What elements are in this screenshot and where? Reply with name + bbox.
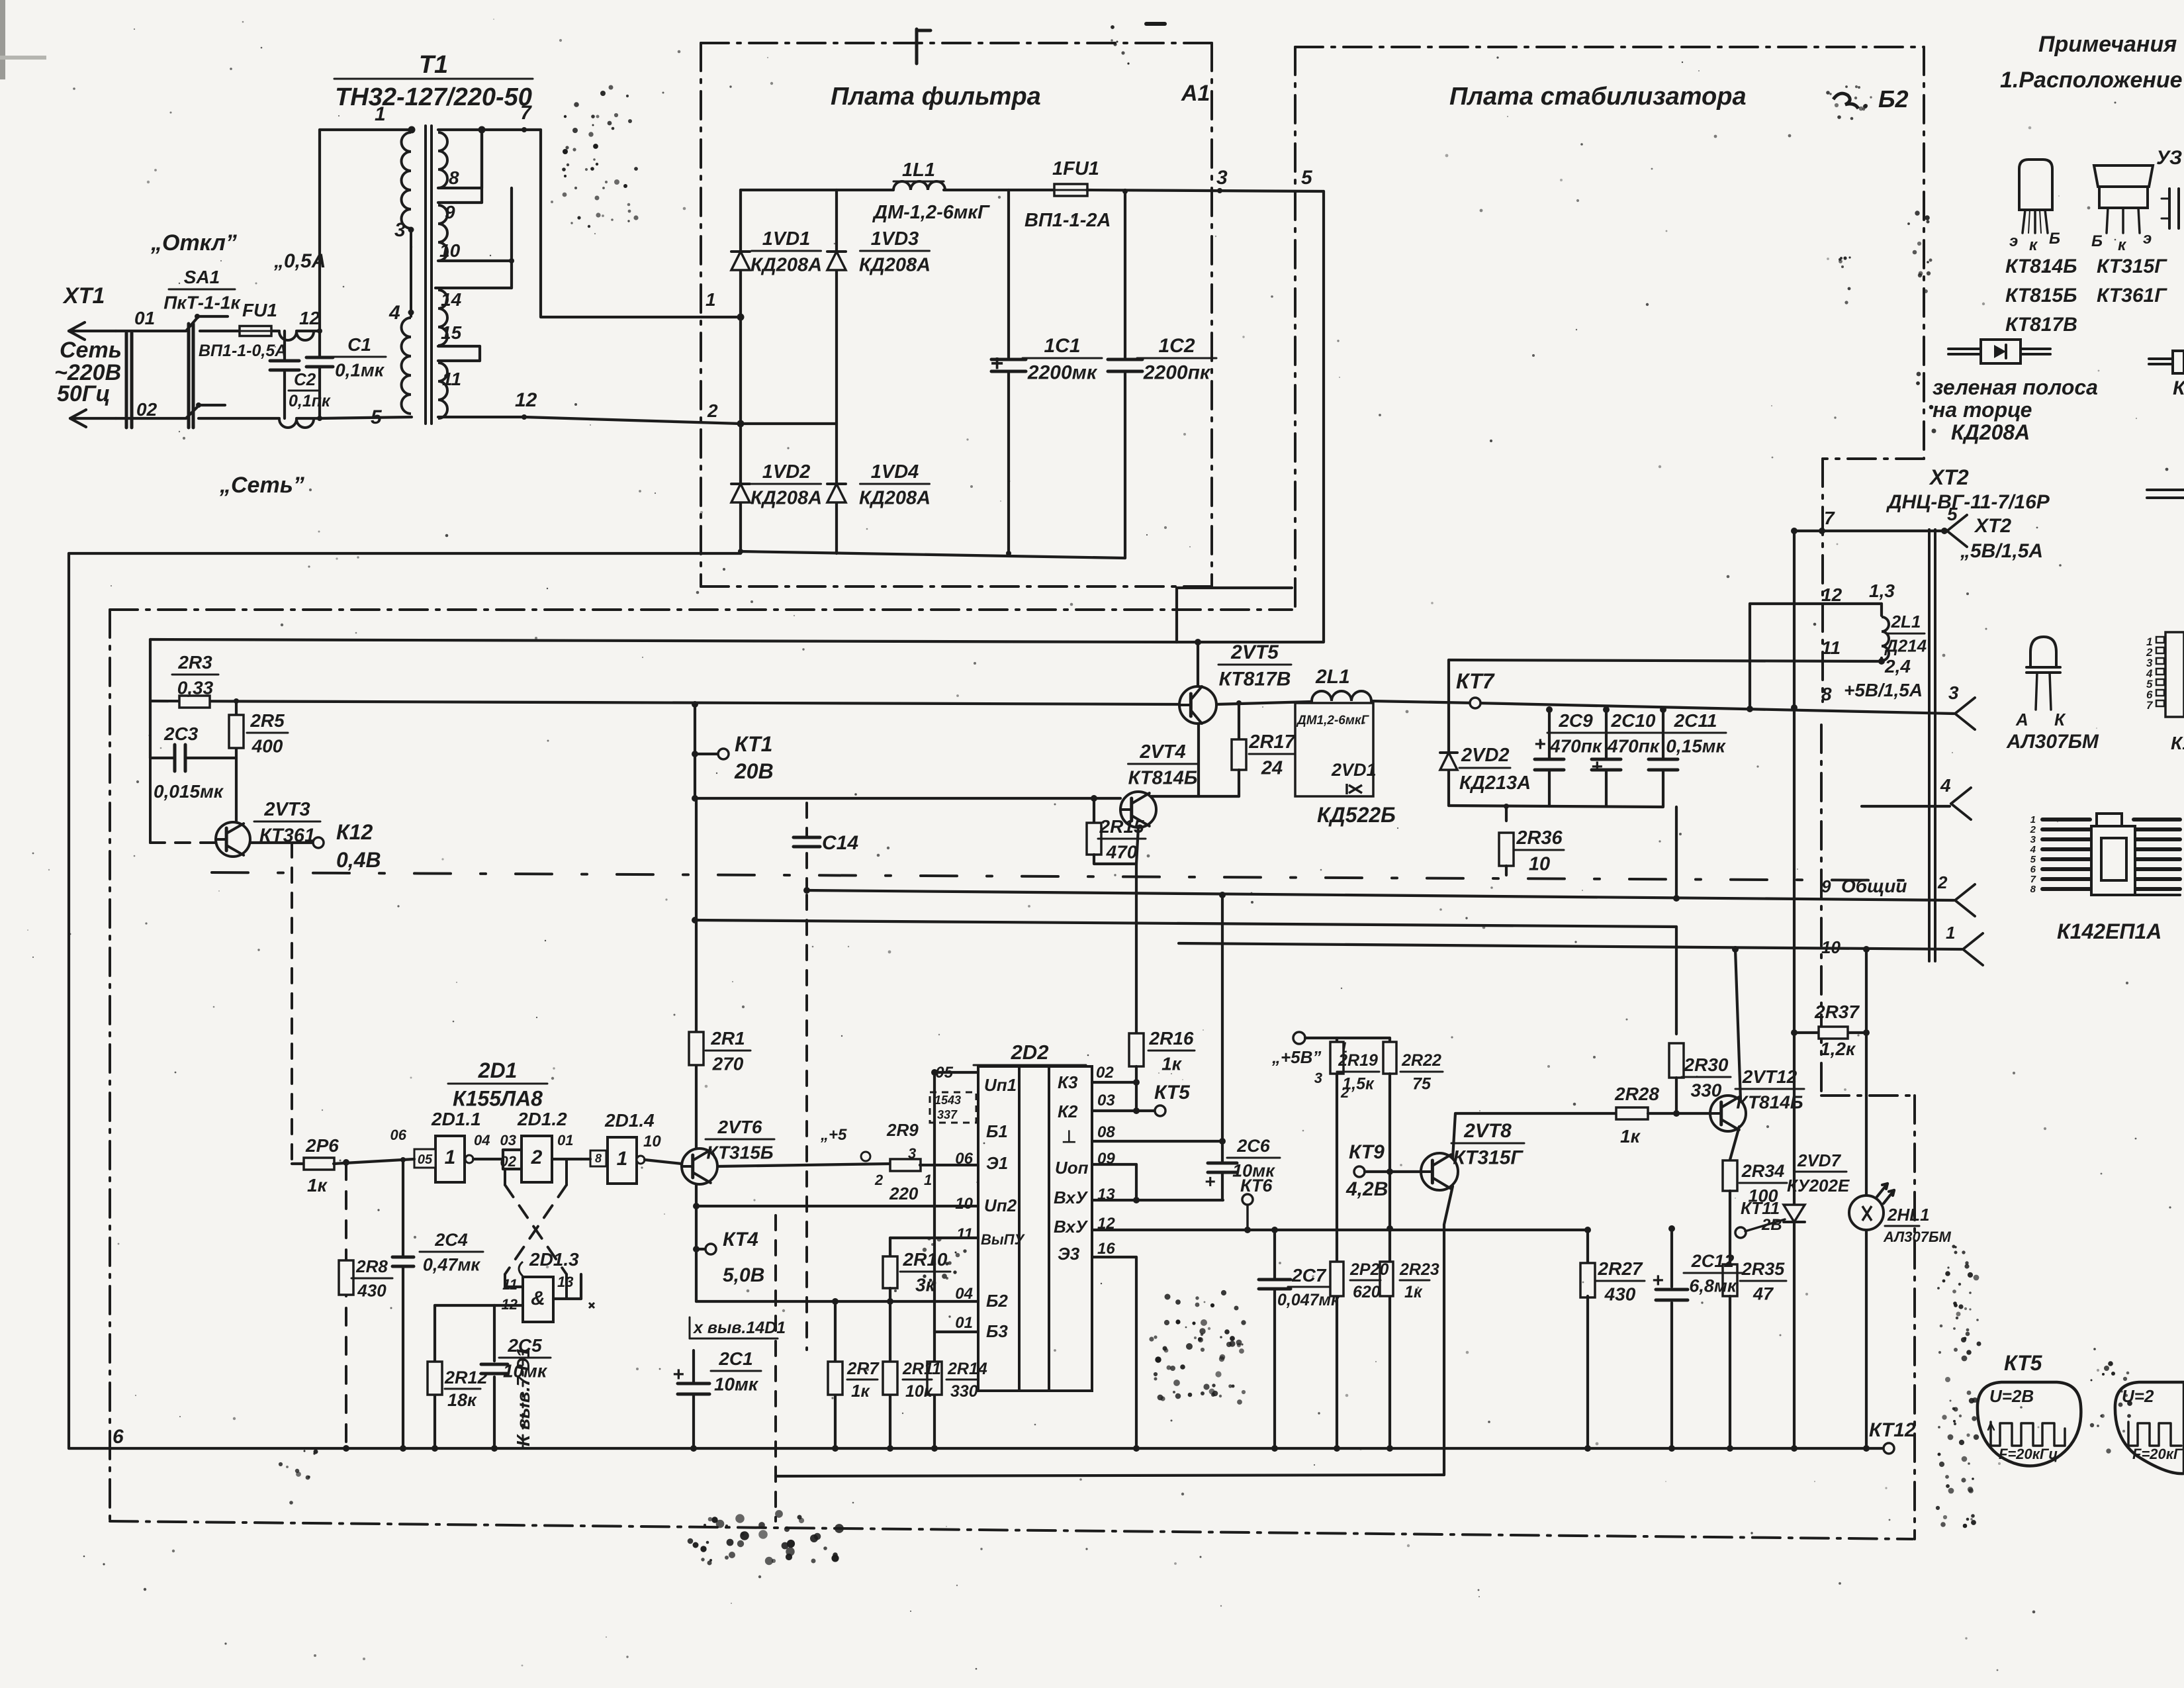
svg-text:3: 3 (908, 1145, 916, 1162)
svg-text:К142ЕП1А: К142ЕП1А (2057, 919, 2161, 943)
svg-text:15: 15 (441, 322, 462, 343)
svg-text:2С11: 2С11 (1674, 710, 1717, 731)
svg-text:1к: 1к (1620, 1126, 1641, 1147)
svg-text:2R7: 2R7 (846, 1358, 880, 1378)
svg-text:2R14: 2R14 (947, 1360, 987, 1378)
svg-text:4: 4 (1940, 775, 1951, 796)
svg-text:2D1.1: 2D1.1 (431, 1109, 481, 1129)
svg-text:1к: 1к (1161, 1053, 1183, 1074)
svg-text:КД208А: КД208А (859, 487, 931, 508)
svg-text:2R5: 2R5 (250, 710, 285, 731)
svg-text:8: 8 (595, 1152, 602, 1165)
svg-text:„0,5А: „0,5А (273, 250, 326, 272)
svg-text:0,4В: 0,4В (336, 848, 381, 872)
svg-text:Общии: Общии (1841, 876, 1907, 896)
svg-text:1: 1 (705, 289, 716, 310)
svg-text:330: 330 (1691, 1080, 1722, 1100)
svg-text:КТ11: КТ11 (1741, 1198, 1780, 1218)
svg-text:1VD2: 1VD2 (762, 461, 811, 483)
svg-text:10мк: 10мк (714, 1374, 759, 1394)
svg-text:+: + (1652, 1270, 1664, 1291)
svg-text:+: + (1534, 733, 1546, 755)
svg-text:3: 3 (394, 219, 406, 241)
svg-text:К: К (2173, 377, 2184, 399)
svg-text:1,3: 1,3 (1869, 581, 1895, 601)
svg-text:КТ5: КТ5 (2004, 1351, 2043, 1375)
svg-text:АЛ307БМ: АЛ307БМ (2006, 731, 2099, 753)
svg-text:2С1: 2С1 (718, 1348, 752, 1369)
svg-text:2R36: 2R36 (1516, 827, 1563, 849)
svg-text:„+5В”: „+5В” (1271, 1047, 1321, 1067)
svg-text:2: 2 (531, 1147, 543, 1168)
svg-text:2R37: 2R37 (1814, 1002, 1860, 1022)
svg-text:УЗ: УЗ (2156, 147, 2182, 169)
svg-text:05: 05 (418, 1152, 433, 1167)
svg-text:+: + (1591, 756, 1603, 778)
svg-text:2R8: 2R8 (355, 1256, 388, 1276)
svg-text:Т1: Т1 (419, 51, 448, 79)
svg-text:6: 6 (113, 1426, 124, 1448)
svg-text:КТ6: КТ6 (1240, 1176, 1273, 1196)
svg-text:КД522Б: КД522Б (1317, 803, 1396, 827)
svg-text:2R23: 2R23 (1399, 1260, 1439, 1279)
svg-text:1543: 1543 (934, 1094, 961, 1107)
svg-text:01: 01 (955, 1314, 973, 1332)
svg-text:С2: С2 (294, 369, 316, 389)
svg-text:„Откл”: „Откл” (150, 230, 237, 256)
svg-text:+: + (990, 351, 1003, 376)
svg-text:КТ814Б: КТ814Б (2005, 256, 2077, 277)
svg-text:⊥: ⊥ (1062, 1127, 1077, 1147)
svg-text:8: 8 (1821, 684, 1832, 704)
svg-text:КТ817В: КТ817В (1219, 669, 1291, 690)
svg-text:3: 3 (1948, 682, 1959, 703)
svg-text:ХТ2: ХТ2 (1974, 515, 2011, 537)
svg-text:0,15мк: 0,15мк (1666, 735, 1726, 756)
svg-text:2HL1: 2HL1 (1887, 1205, 1930, 1225)
svg-text:2D1.4: 2D1.4 (604, 1110, 655, 1131)
svg-text:х выв.14D1: х выв.14D1 (692, 1319, 786, 1337)
svg-text:1: 1 (617, 1148, 628, 1170)
svg-text:э: э (2009, 232, 2018, 250)
svg-text:на торце: на торце (1933, 398, 2032, 422)
svg-text:К: К (2054, 710, 2066, 729)
svg-text:1к: 1к (1404, 1283, 1423, 1301)
svg-text:2R10: 2R10 (903, 1249, 948, 1270)
svg-text:16: 16 (1097, 1240, 1115, 1258)
svg-text:2VD1: 2VD1 (1331, 760, 1377, 780)
svg-text:Примечания: Примечания (2038, 32, 2177, 57)
svg-text:КД208А: КД208А (859, 254, 931, 275)
svg-text:КТ5: КТ5 (1154, 1082, 1191, 1103)
svg-text:Б3: Б3 (986, 1321, 1008, 1341)
svg-text:2Р6: 2Р6 (305, 1135, 339, 1156)
svg-text:2VD2: 2VD2 (1461, 745, 1510, 766)
svg-text:03: 03 (1097, 1092, 1115, 1109)
svg-text:к: к (2118, 236, 2127, 254)
svg-text:ВП1-1-0,5А: ВП1-1-0,5А (199, 342, 287, 360)
svg-text:FU1: FU1 (242, 300, 277, 320)
svg-text:1: 1 (924, 1172, 932, 1188)
svg-text:2R35: 2R35 (1741, 1259, 1786, 1279)
svg-text:ТН32-127/220-50: ТН32-127/220-50 (335, 83, 532, 111)
svg-text:3: 3 (1216, 167, 1228, 189)
svg-text:К2: К2 (1058, 1102, 1078, 1121)
svg-text:КТ4: КТ4 (723, 1229, 758, 1250)
svg-text:Б: Б (2091, 232, 2103, 250)
svg-text:U=2В: U=2В (1989, 1386, 2034, 1406)
svg-text:1VD3: 1VD3 (871, 228, 919, 250)
svg-text:1VD4: 1VD4 (871, 461, 919, 483)
svg-text:АЛ307БМ: АЛ307БМ (1883, 1229, 1952, 1245)
svg-text:3: 3 (1314, 1070, 1322, 1086)
svg-text:2R16: 2R16 (1149, 1028, 1194, 1049)
svg-text:2R28: 2R28 (1614, 1084, 1659, 1104)
svg-text:1FU1: 1FU1 (1052, 158, 1099, 179)
svg-text:13: 13 (557, 1274, 573, 1290)
svg-text:С1: С1 (347, 334, 371, 355)
svg-text:02: 02 (136, 399, 158, 420)
svg-text:„Сеть”: „Сеть” (219, 473, 304, 498)
svg-text:470: 470 (1106, 841, 1138, 862)
svg-text:11: 11 (1821, 637, 1841, 658)
svg-text:2R11: 2R11 (902, 1360, 941, 1378)
svg-text:Uоп: Uоп (1055, 1158, 1089, 1178)
svg-text:8: 8 (449, 167, 459, 188)
svg-text:2200мк: 2200мк (1027, 362, 1098, 384)
svg-text:2VT5: 2VT5 (1230, 641, 1279, 663)
svg-text:Б2: Б2 (1878, 85, 1909, 113)
svg-text:430: 430 (1604, 1284, 1636, 1304)
svg-text:КТ315Г: КТ315Г (1453, 1147, 1524, 1169)
svg-text:11: 11 (502, 1276, 518, 1293)
svg-text:4,2В: 4,2В (1345, 1178, 1388, 1200)
svg-text:2R30: 2R30 (1684, 1055, 1729, 1075)
svg-text:К155ЛА8: К155ЛА8 (453, 1087, 543, 1111)
svg-text:КД208А: КД208А (1951, 420, 2030, 444)
svg-text:2VT6: 2VT6 (717, 1117, 762, 1137)
svg-text:Б: Б (2049, 230, 2060, 248)
svg-text:7: 7 (2146, 699, 2154, 712)
svg-text:470пк: 470пк (1549, 735, 1603, 756)
svg-text:„5В/1,5А: „5В/1,5А (1960, 540, 2043, 562)
svg-text:0,1мк: 0,1мк (335, 359, 385, 380)
svg-text:18к: 18к (447, 1390, 477, 1410)
svg-text:2R19: 2R19 (1338, 1051, 1378, 1070)
svg-text:2R3: 2R3 (177, 652, 212, 673)
svg-text:э: э (2143, 230, 2152, 248)
svg-text:F=20кГц: F=20кГц (1999, 1446, 2058, 1462)
svg-text:47: 47 (1752, 1284, 1774, 1303)
svg-text:1.Расположение выв: 1.Расположение выв (2000, 68, 2184, 93)
svg-text:Сеть: Сеть (60, 338, 122, 363)
svg-text:Э3: Э3 (1058, 1244, 1080, 1264)
svg-text:2R17: 2R17 (1248, 731, 1296, 753)
svg-text:Плата стабилизатора: Плата стабилизатора (1449, 83, 1747, 111)
svg-text:КТ361Г: КТ361Г (2097, 285, 2167, 306)
svg-text:+: + (1205, 1171, 1215, 1192)
svg-text:2D1: 2D1 (478, 1058, 518, 1082)
svg-text:2D2: 2D2 (1011, 1041, 1049, 1064)
svg-text:ДНЦ-ВГ-11-7/16Р: ДНЦ-ВГ-11-7/16Р (1886, 491, 2050, 513)
svg-text:2С10: 2С10 (1611, 710, 1656, 731)
svg-text:620: 620 (1353, 1283, 1381, 1301)
svg-text:зеленая полоса: зеленая полоса (1933, 375, 2098, 399)
svg-text:к: к (2029, 236, 2038, 254)
svg-text:5: 5 (1301, 167, 1313, 189)
svg-text:+: + (672, 1364, 684, 1385)
svg-text:КТ815Б: КТ815Б (2005, 285, 2077, 306)
svg-text:КТ315Г: КТ315Г (2097, 256, 2167, 277)
svg-text:2D1.2: 2D1.2 (517, 1109, 567, 1129)
svg-text:2R34: 2R34 (1741, 1161, 1785, 1181)
svg-text:КД208А: КД208А (751, 487, 822, 508)
svg-text:11: 11 (956, 1225, 973, 1243)
svg-text:03: 03 (500, 1132, 516, 1149)
svg-text:5,0В: 5,0В (723, 1264, 764, 1286)
svg-text:F=20кГц: F=20кГц (2132, 1446, 2184, 1462)
svg-text:7: 7 (520, 102, 532, 124)
svg-text:КТ12: КТ12 (1869, 1419, 1916, 1441)
svg-text:К1: К1 (2171, 733, 2184, 753)
svg-text:220: 220 (889, 1184, 919, 1203)
svg-text:ВыПУ: ВыПУ (981, 1231, 1025, 1248)
svg-text:Б1: Б1 (986, 1121, 1008, 1141)
svg-text:SA1: SA1 (184, 267, 220, 287)
svg-text:12: 12 (299, 308, 320, 328)
svg-text:2R9: 2R9 (886, 1120, 919, 1140)
svg-text:10к: 10к (905, 1382, 933, 1401)
svg-text:2VT3: 2VT3 (263, 799, 310, 820)
svg-text:ВхУ: ВхУ (1054, 1217, 1089, 1237)
svg-text:1,2к: 1,2к (1820, 1039, 1856, 1059)
svg-text:6,8мк: 6,8мк (1689, 1276, 1737, 1295)
svg-text:2L1: 2L1 (1891, 612, 1921, 632)
svg-text:24: 24 (1261, 757, 1283, 778)
svg-text:2С4: 2С4 (434, 1230, 468, 1250)
svg-text:Uп1: Uп1 (984, 1075, 1017, 1095)
svg-text:75: 75 (1412, 1074, 1432, 1093)
svg-text:1,5к: 1,5к (1342, 1074, 1375, 1093)
svg-text:50Гц: 50Гц (57, 381, 111, 406)
svg-text:20В: 20В (734, 759, 774, 783)
svg-text:02: 02 (1096, 1064, 1114, 1082)
svg-text:&: & (531, 1288, 545, 1309)
svg-text:2,4: 2,4 (1884, 656, 1911, 677)
svg-text:+5В/1,5А: +5В/1,5А (1844, 680, 1923, 700)
svg-text:4: 4 (388, 302, 400, 324)
svg-text:Э1: Э1 (986, 1153, 1008, 1173)
svg-text:06: 06 (390, 1127, 407, 1143)
svg-text:01: 01 (557, 1132, 573, 1149)
svg-text:0,47мк: 0,47мк (423, 1254, 481, 1274)
svg-text:К12: К12 (336, 820, 373, 844)
svg-text:10: 10 (955, 1195, 973, 1213)
svg-text:ХТ2: ХТ2 (1929, 465, 1969, 489)
svg-text:КТ9: КТ9 (1349, 1141, 1385, 1163)
svg-text:ВП1-1-2А: ВП1-1-2А (1024, 210, 1111, 231)
svg-text:10: 10 (1529, 853, 1550, 874)
svg-text:12: 12 (515, 389, 537, 411)
svg-text:270: 270 (712, 1053, 744, 1074)
svg-text:КТ1: КТ1 (735, 732, 772, 756)
svg-text:2L1: 2L1 (1315, 666, 1350, 688)
svg-text:0,015мк: 0,015мк (154, 781, 224, 802)
svg-text:2С3: 2С3 (163, 724, 199, 744)
svg-text:9: 9 (1821, 876, 1831, 896)
svg-text:0,33: 0,33 (177, 677, 214, 698)
svg-text:КТ315Б: КТ315Б (706, 1142, 773, 1162)
svg-text:1VD1: 1VD1 (762, 228, 811, 250)
svg-text:2VT12: 2VT12 (1742, 1066, 1797, 1087)
svg-text:2R22: 2R22 (1401, 1051, 1441, 1070)
svg-text:К3: К3 (1058, 1072, 1078, 1092)
svg-text:2R1: 2R1 (710, 1028, 745, 1049)
svg-text:С14: С14 (822, 832, 858, 854)
svg-text:КТ814Б: КТ814Б (1128, 767, 1198, 788)
svg-text:КТ361: КТ361 (259, 825, 315, 846)
svg-text:2R27: 2R27 (1598, 1258, 1643, 1279)
svg-text:ПкТ-1-1к: ПкТ-1-1к (163, 292, 241, 312)
svg-text:1: 1 (1946, 923, 1955, 943)
svg-text:08: 08 (1097, 1123, 1115, 1141)
svg-text:КУ202Е: КУ202Е (1787, 1176, 1850, 1196)
svg-text:7: 7 (1824, 508, 1835, 528)
svg-text:2VD7: 2VD7 (1797, 1150, 1842, 1170)
svg-text:1: 1 (445, 1147, 456, 1168)
svg-text:„+5: „+5 (820, 1126, 847, 1144)
svg-text:1к: 1к (851, 1381, 870, 1401)
svg-text:ДМ1,2-6мкГ: ДМ1,2-6мкГ (1296, 714, 1370, 727)
svg-text:10: 10 (439, 240, 461, 261)
svg-text:Д214: Д214 (1884, 635, 1927, 655)
svg-text:2VT8: 2VT8 (1463, 1120, 1512, 1142)
svg-text:01: 01 (134, 308, 155, 328)
svg-text:2Р20: 2Р20 (1349, 1260, 1388, 1279)
svg-text:КТ814Б: КТ814Б (1736, 1092, 1803, 1112)
svg-text:2: 2 (1937, 872, 1948, 892)
svg-text:04: 04 (474, 1132, 490, 1149)
svg-text:2С7: 2С7 (1291, 1265, 1327, 1286)
svg-text:1L1: 1L1 (902, 160, 935, 181)
svg-text:2200пк: 2200пк (1143, 362, 1211, 384)
svg-text:КД208А: КД208А (751, 254, 822, 275)
svg-text:КТ7: КТ7 (1456, 669, 1496, 693)
svg-text:1: 1 (375, 103, 386, 125)
svg-text:Uп2: Uп2 (984, 1196, 1017, 1215)
svg-text:2: 2 (707, 400, 718, 421)
svg-text:400: 400 (251, 735, 283, 756)
svg-text:КТ817В: КТ817В (2005, 314, 2077, 336)
svg-text:1С1: 1С1 (1044, 335, 1080, 357)
svg-text:2С12: 2С12 (1691, 1251, 1735, 1271)
svg-text:430: 430 (357, 1280, 387, 1300)
svg-text:А: А (2015, 710, 2028, 729)
svg-text:10: 10 (1821, 937, 1841, 957)
svg-text:ДМ-1,2-6мкГ: ДМ-1,2-6мкГ (872, 202, 990, 223)
svg-text:5: 5 (1947, 504, 1958, 524)
svg-text:2: 2 (874, 1172, 884, 1188)
svg-text:2С6: 2С6 (1236, 1136, 1271, 1156)
svg-text:0,1пк: 0,1пк (289, 392, 331, 410)
svg-text:2С9: 2С9 (1558, 710, 1593, 731)
svg-text:2D1.3: 2D1.3 (529, 1249, 579, 1270)
svg-text:Б2: Б2 (986, 1291, 1008, 1311)
svg-text:470пк: 470пк (1607, 735, 1661, 756)
svg-text:ХТ1: ХТ1 (62, 283, 105, 308)
svg-text:5: 5 (371, 406, 383, 428)
svg-text:2R15: 2R15 (1099, 816, 1144, 837)
svg-text:12: 12 (1821, 585, 1843, 605)
svg-text:8: 8 (2030, 884, 2036, 895)
svg-text:10: 10 (643, 1133, 661, 1150)
svg-text:ВхУ: ВхУ (1054, 1188, 1089, 1207)
svg-text:2VT4: 2VT4 (1139, 741, 1185, 763)
svg-text:1С2: 1С2 (1158, 335, 1195, 357)
svg-text:КД213А: КД213А (1459, 773, 1531, 794)
svg-text:Плата фильтра: Плата фильтра (831, 83, 1041, 111)
svg-text:А1: А1 (1181, 81, 1210, 106)
svg-text:1к: 1к (307, 1175, 328, 1196)
svg-text:337: 337 (937, 1108, 958, 1121)
svg-text:330: 330 (950, 1382, 978, 1401)
